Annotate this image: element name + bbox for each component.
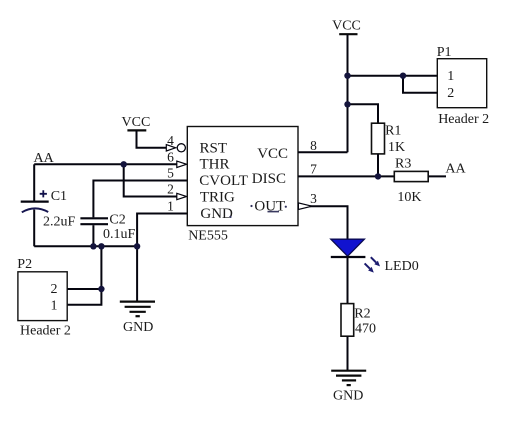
svg-text:C1: C1 xyxy=(51,189,67,204)
svg-text:P1: P1 xyxy=(437,45,452,60)
wire to P2 xyxy=(67,246,101,304)
junction R1 on pin 7 wire xyxy=(375,173,381,179)
svg-text:GND: GND xyxy=(123,320,153,335)
capacitor C1 xyxy=(21,164,76,246)
svg-text:TRIG: TRIG xyxy=(200,189,235,205)
U1 pin 2 input arrow xyxy=(177,193,187,199)
svg-text:VCC: VCC xyxy=(122,115,151,130)
IC U1 NE555 xyxy=(187,127,298,244)
svg-text:2.2uF: 2.2uF xyxy=(43,215,76,230)
capacitor C2 xyxy=(80,213,135,247)
svg-text:THR: THR xyxy=(200,157,230,173)
resistor R1 xyxy=(372,123,406,155)
svg-text:1: 1 xyxy=(167,199,174,214)
svg-text:C2: C2 xyxy=(109,213,125,228)
junction VCC rail P1 branch xyxy=(344,73,350,79)
svg-text:2: 2 xyxy=(167,182,174,197)
svg-text:1: 1 xyxy=(447,69,454,84)
svg-text:0.1uF: 0.1uF xyxy=(103,227,136,242)
wire to P1 pin 2 xyxy=(403,76,437,93)
svg-text:1K: 1K xyxy=(388,140,405,155)
svg-text:GND: GND xyxy=(333,388,363,403)
connector P1 xyxy=(437,45,489,127)
svg-text:Header 2: Header 2 xyxy=(20,324,71,339)
wire OUT pin 3 to LED xyxy=(310,206,348,239)
svg-text:8: 8 xyxy=(310,138,317,153)
ground symbol GND (right) xyxy=(331,371,366,404)
svg-text:7: 7 xyxy=(310,162,317,177)
junction VCC rail R1 branch xyxy=(344,101,350,107)
svg-text:VCC: VCC xyxy=(332,19,361,34)
junction pin1 ground node xyxy=(134,243,140,249)
junction THR/TRIG node xyxy=(121,161,127,167)
wire VCC to U1 pin 4 xyxy=(137,130,167,147)
svg-text:3: 3 xyxy=(310,191,317,206)
junction P1 pin 2 branch xyxy=(400,73,406,79)
U1 pin 4 input arrow xyxy=(166,145,175,151)
power symbol VCC (left, feeds pin 4) xyxy=(122,115,151,130)
wire CVOLT pin 5 to C2 xyxy=(93,181,187,218)
wire ground bus (bottom left) xyxy=(34,245,137,247)
resistor R2 xyxy=(341,304,376,337)
LED LED0 xyxy=(331,239,419,274)
wire LED cathode to R2 xyxy=(347,257,349,304)
wire R3 to net AA xyxy=(428,175,446,177)
svg-text:470: 470 xyxy=(355,322,376,337)
svg-text:GND: GND xyxy=(200,206,233,222)
wire VCC branch to R1 xyxy=(348,104,379,123)
svg-text:DISC: DISC xyxy=(252,171,286,187)
wire net AA / THR pin 6 xyxy=(34,163,177,165)
svg-text:RST: RST xyxy=(200,140,228,156)
wire VCC to P1 pin 1 xyxy=(348,75,438,77)
svg-text:R1: R1 xyxy=(385,124,401,139)
svg-text:2: 2 xyxy=(51,282,58,297)
svg-text:6: 6 xyxy=(167,149,174,164)
connector P2 xyxy=(17,257,71,339)
junction P2 drop on ground bus xyxy=(98,243,104,249)
svg-text:Header 2: Header 2 xyxy=(438,112,489,127)
svg-text:VCC: VCC xyxy=(257,146,288,162)
svg-text:R3: R3 xyxy=(395,157,411,172)
svg-text:CVOLT: CVOLT xyxy=(199,173,248,189)
svg-text:P2: P2 xyxy=(17,257,32,272)
svg-text:1: 1 xyxy=(51,299,58,314)
wire R2 to ground xyxy=(347,336,349,370)
svg-text:R2: R2 xyxy=(354,307,370,322)
wire THR to TRIG tie xyxy=(124,164,177,196)
wire R1 to pin 7 xyxy=(377,154,379,177)
wire DISC pin 7 xyxy=(298,175,394,177)
svg-text:5: 5 xyxy=(167,166,174,181)
svg-text:NE555: NE555 xyxy=(188,229,228,244)
U1 pin 3 output arrow xyxy=(298,203,312,210)
power symbol VCC (top right) xyxy=(332,19,361,35)
svg-text:4: 4 xyxy=(167,133,174,148)
wire VCC rail down to pin 8 xyxy=(298,34,348,152)
svg-text:LED0: LED0 xyxy=(385,259,419,274)
svg-text:AA: AA xyxy=(445,162,466,177)
wire GND pin 1 xyxy=(137,214,187,247)
svg-text:2: 2 xyxy=(447,86,454,101)
junction C2 to ground bus xyxy=(90,243,96,249)
U1 pin 6 input arrow xyxy=(177,161,187,167)
junction P2 pin 2 tap xyxy=(98,286,104,292)
ground symbol GND (left) xyxy=(120,246,155,335)
U1 pin 4 inversion bubble xyxy=(177,144,185,152)
resistor R3 xyxy=(394,157,428,206)
svg-text:10K: 10K xyxy=(397,190,421,205)
